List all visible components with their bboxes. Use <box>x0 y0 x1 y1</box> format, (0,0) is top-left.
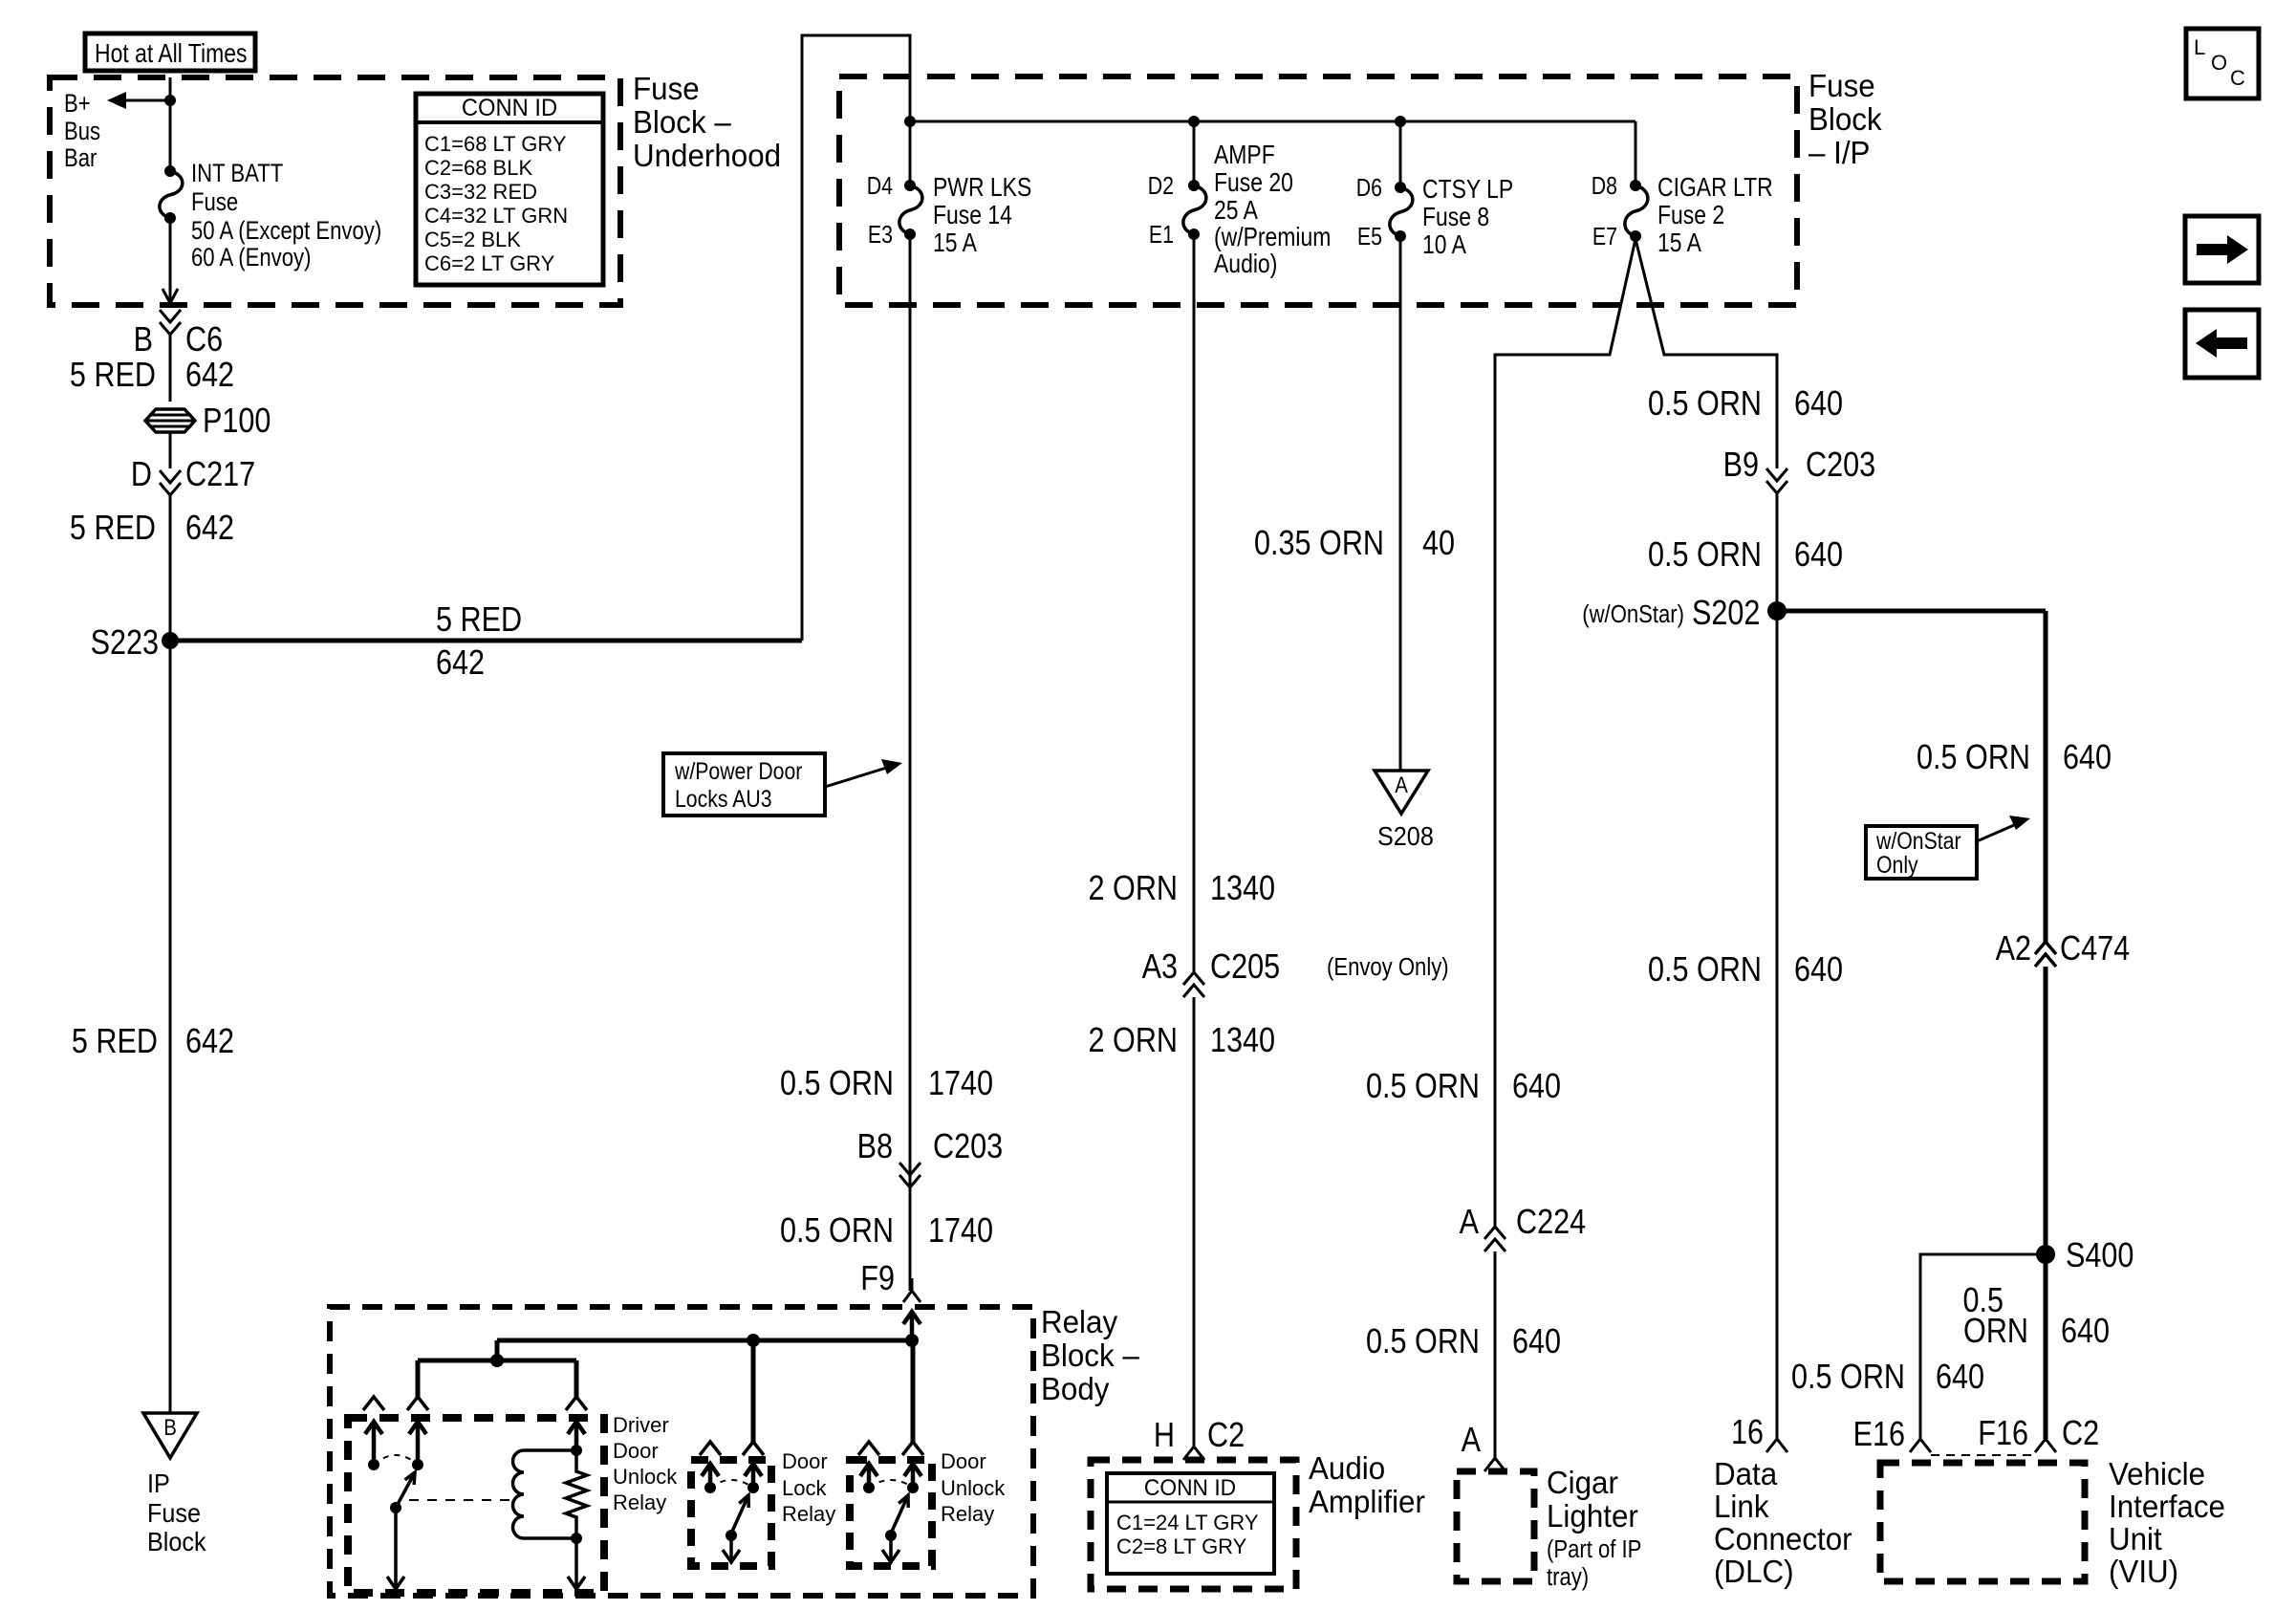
svg-text:(Part of IP: (Part of IP <box>1547 1535 1641 1563</box>
svg-text:F9: F9 <box>860 1260 895 1298</box>
svg-text:1340: 1340 <box>1210 1022 1275 1060</box>
svg-text:(w/OnStar): (w/OnStar) <box>1582 600 1684 628</box>
svg-text:ORN: ORN <box>1963 1313 2028 1351</box>
svg-text:0.35 ORN: 0.35 ORN <box>1254 525 1384 563</box>
svg-text:0.5 ORN: 0.5 ORN <box>1917 739 2030 777</box>
switch blade driver relay <box>396 1472 415 1508</box>
svg-text:S202: S202 <box>1692 595 1760 633</box>
svg-text:0.5 ORN: 0.5 ORN <box>1791 1359 1905 1397</box>
svg-text:INT BATT: INT BATT <box>191 160 283 188</box>
svg-text:A: A <box>1460 1204 1480 1242</box>
svg-text:(DLC): (DLC) <box>1714 1554 1794 1589</box>
svg-text:640: 640 <box>1936 1359 1984 1397</box>
svg-text:C474: C474 <box>2060 930 2130 968</box>
wire 5 RED 642 from S223 to riser (bold) <box>170 639 802 643</box>
svg-text:Connector: Connector <box>1714 1521 1852 1556</box>
svg-text:C1=24 LT GRY: C1=24 LT GRY <box>1116 1511 1259 1534</box>
svg-text:AMPF: AMPF <box>1214 141 1275 170</box>
svg-text:C: C <box>2230 66 2245 90</box>
svg-text:S223: S223 <box>91 624 159 663</box>
wire S400 branch left down to VIU pin E16 <box>1920 1254 2046 1439</box>
node B+ bus bar arrow <box>125 99 170 102</box>
svg-text:0.5 ORN: 0.5 ORN <box>1366 1323 1480 1361</box>
svg-text:Fuse 8: Fuse 8 <box>1422 203 1489 232</box>
svg-text:Block: Block <box>1809 101 1883 137</box>
svg-text:P100: P100 <box>203 402 271 441</box>
svg-text:C203: C203 <box>933 1128 1003 1166</box>
svg-text:D8: D8 <box>1592 172 1617 201</box>
svg-text:E1: E1 <box>1149 221 1174 250</box>
wire pivot to bottom arrow driver relay <box>394 1508 398 1587</box>
splice S400 <box>2036 1245 2055 1264</box>
connector B / C6 <box>160 310 181 335</box>
wire battery feed vertical inside underhood block <box>169 77 172 171</box>
svg-text:Block –: Block – <box>1041 1338 1139 1373</box>
svg-text:Unlock: Unlock <box>613 1465 678 1489</box>
svg-text:Fuse 14: Fuse 14 <box>933 201 1012 230</box>
svg-text:Fuse: Fuse <box>191 188 238 217</box>
svg-text:A2: A2 <box>1996 930 2031 968</box>
svg-text:Link: Link <box>1714 1489 1769 1524</box>
svg-text:0.5 ORN: 0.5 ORN <box>1648 951 1762 990</box>
svg-text:0.5 ORN: 0.5 ORN <box>1648 385 1762 424</box>
svg-text:(Envoy Only): (Envoy Only) <box>1327 953 1449 981</box>
svg-text:Bar: Bar <box>64 144 97 173</box>
relay Door Lock Relay (dashed box) <box>691 1460 771 1566</box>
svg-text:Door: Door <box>782 1449 828 1473</box>
svg-text:F16: F16 <box>1978 1415 2028 1453</box>
svg-text:Unlock: Unlock <box>941 1476 1006 1500</box>
wire 2 ORN 1340 to audio amplifier <box>1193 997 1196 1447</box>
relay coil terminal <box>574 1424 579 1450</box>
arrow box right <box>2185 216 2259 283</box>
LOC reference box <box>2186 29 2259 98</box>
wire S202 branch to OnStar VIU (bold) <box>1777 609 2046 614</box>
svg-text:0.5 ORN: 0.5 ORN <box>1366 1068 1480 1106</box>
svg-text:642: 642 <box>185 1023 234 1061</box>
wire entering relay block from F9 (bold arrow up) <box>910 1314 915 1340</box>
svg-text:B8: B8 <box>857 1128 893 1166</box>
wire 0.35 ORN 40 from CTSY LP fuse down to S208 <box>1399 236 1402 771</box>
svg-text:640: 640 <box>1794 536 1843 575</box>
wire 0.5 ORN 640 to S202 <box>1776 493 1779 611</box>
terminal triangle B to IP Fuse Block <box>143 1413 197 1458</box>
svg-text:E5: E5 <box>1357 223 1382 251</box>
component box Audio Amplifier (dashed) <box>1091 1460 1296 1589</box>
contact arrows driver relay <box>372 1424 377 1463</box>
svg-text:IP: IP <box>147 1469 170 1499</box>
svg-text:C5=2 BLK: C5=2 BLK <box>424 228 521 251</box>
relay resistor <box>566 1450 587 1538</box>
connector table CONN ID audio amplifier <box>1107 1473 1274 1574</box>
relay Door Unlock Relay (dashed box) <box>850 1460 932 1566</box>
wire 5 RED 642 segment 2 <box>169 495 172 641</box>
svg-text:Unit: Unit <box>2109 1521 2162 1556</box>
wire S400 down to VIU pin F16 (bold) <box>2044 1254 2048 1439</box>
svg-text:Audio): Audio) <box>1214 250 1277 279</box>
arrow from AU3 label to wire <box>825 766 893 787</box>
connector table CONN ID underhood <box>416 94 603 285</box>
svg-text:642: 642 <box>185 357 234 395</box>
label box w/Power Door Locks AU3 <box>663 753 825 816</box>
connector A / C224 <box>1484 1227 1505 1251</box>
connector A3 / C205 (Envoy Only) <box>1183 972 1204 997</box>
svg-text:C6: C6 <box>185 321 223 359</box>
svg-text:S400: S400 <box>2066 1237 2134 1275</box>
svg-text:tray): tray) <box>1547 1563 1589 1591</box>
terminal chevrons driver relay <box>363 1397 384 1410</box>
wire coil bottom to arrow <box>574 1538 578 1587</box>
wire bus inside relay block (bold) <box>497 1338 912 1343</box>
fuse CTSY LP Fuse 8 10A (pins D6/E5) <box>1390 187 1413 236</box>
svg-text:E7: E7 <box>1592 223 1617 251</box>
svg-text:Lighter: Lighter <box>1547 1498 1638 1534</box>
component box Fuse Block - I/P (dashed) <box>839 76 1797 305</box>
svg-text:640: 640 <box>1794 385 1843 424</box>
svg-text:C2=68 BLK: C2=68 BLK <box>424 156 532 180</box>
contact arrows door unlock relay <box>867 1466 872 1486</box>
relay coil <box>513 1450 577 1538</box>
wire drop to door lock relay <box>751 1340 756 1444</box>
svg-text:PWR LKS: PWR LKS <box>933 173 1031 203</box>
svg-text:w/OnStar: w/OnStar <box>1875 827 1961 854</box>
svg-text:Relay: Relay <box>782 1502 835 1526</box>
fuse AMPF Fuse 20 25A (pins D2/E1) <box>1183 185 1206 234</box>
connector A2 / C474 <box>2035 942 2056 967</box>
svg-text:Driver: Driver <box>613 1413 669 1437</box>
splice S223 <box>162 632 179 649</box>
svg-text:640: 640 <box>1794 951 1843 990</box>
svg-text:50 A (Except Envoy): 50 A (Except Envoy) <box>191 217 381 246</box>
svg-text:Block –: Block – <box>633 104 731 140</box>
component box Vehicle Interface Unit (dashed) <box>1880 1463 2085 1581</box>
svg-text:Relay: Relay <box>613 1490 666 1514</box>
svg-text:C4=32 LT GRN: C4=32 LT GRN <box>424 204 568 228</box>
svg-text:0.5 ORN: 0.5 ORN <box>1648 536 1762 575</box>
svg-text:Hot at All Times: Hot at All Times <box>95 39 247 69</box>
svg-text:CONN ID: CONN ID <box>462 95 557 121</box>
terminal triangle A splice S208 <box>1375 771 1428 814</box>
svg-text:10 A: 10 A <box>1422 230 1467 260</box>
svg-text:B+: B+ <box>64 90 91 119</box>
wire bus inside I/P fuse block <box>910 120 1635 123</box>
svg-text:– I/P: – I/P <box>1809 135 1870 170</box>
svg-text:C6=2 LT GRY: C6=2 LT GRY <box>424 251 555 275</box>
svg-text:CONN ID: CONN ID <box>1144 1474 1236 1500</box>
svg-text:5 RED: 5 RED <box>72 1023 158 1061</box>
svg-text:C224: C224 <box>1516 1204 1586 1242</box>
svg-text:640: 640 <box>2061 1313 2110 1351</box>
svg-text:15 A: 15 A <box>933 228 978 258</box>
svg-text:A: A <box>1462 1422 1482 1460</box>
svg-text:C2: C2 <box>1207 1417 1245 1455</box>
svg-text:Fuse: Fuse <box>1809 68 1875 103</box>
svg-text:Block: Block <box>147 1527 206 1557</box>
svg-text:A: A <box>1395 772 1408 797</box>
component box Cigar Lighter (dashed) <box>1457 1471 1534 1581</box>
svg-text:Cigar: Cigar <box>1547 1465 1618 1500</box>
svg-text:Vehicle: Vehicle <box>2109 1456 2205 1491</box>
fuse INT BATT 50A/60A <box>160 171 183 218</box>
svg-text:CIGAR LTR: CIGAR LTR <box>1657 173 1773 203</box>
wire from INT BATT fuse to underhood block edge <box>169 218 172 301</box>
svg-text:Amplifier: Amplifier <box>1309 1484 1425 1519</box>
svg-text:Fuse 20: Fuse 20 <box>1214 168 1293 198</box>
svg-text:D: D <box>131 456 152 494</box>
svg-text:A3: A3 <box>1142 948 1178 987</box>
svg-text:Interface: Interface <box>2109 1489 2225 1524</box>
svg-text:O: O <box>2211 51 2227 75</box>
svg-text:C2: C2 <box>2062 1415 2099 1453</box>
svg-text:Lock: Lock <box>782 1476 827 1500</box>
svg-text:C217: C217 <box>185 456 255 494</box>
connector B8 / C203 <box>899 1163 921 1187</box>
svg-text:Fuse: Fuse <box>633 71 700 106</box>
svg-text:w/Power Door: w/Power Door <box>674 757 803 784</box>
svg-text:25 A: 25 A <box>1214 196 1259 226</box>
wire drop to door unlock relay <box>911 1340 916 1444</box>
svg-text:5 RED: 5 RED <box>70 510 156 548</box>
switch blade door unlock relay <box>891 1495 908 1534</box>
svg-text:16: 16 <box>1731 1414 1764 1452</box>
svg-text:C203: C203 <box>1806 446 1875 485</box>
svg-text:Relay: Relay <box>1041 1304 1118 1339</box>
svg-text:Underhood: Underhood <box>633 138 781 173</box>
svg-text:0.5 ORN: 0.5 ORN <box>780 1065 894 1103</box>
svg-text:(w/Premium: (w/Premium <box>1214 223 1331 252</box>
svg-text:B9: B9 <box>1723 446 1759 485</box>
wire 2 ORN 1340 from AMPF fuse down <box>1193 234 1196 972</box>
svg-text:642: 642 <box>185 510 234 548</box>
svg-text:60 A (Envoy): 60 A (Envoy) <box>191 244 311 272</box>
relay Driver Door Unlock Relay (dashed box) <box>348 1418 604 1593</box>
svg-text:B: B <box>134 321 153 359</box>
fuse CIGAR LTR Fuse 2 15A (pins D8/E7) <box>1625 185 1648 236</box>
arrow box left <box>2185 310 2259 378</box>
svg-text:Only: Only <box>1876 851 1918 878</box>
svg-text:15 A: 15 A <box>1657 228 1702 258</box>
label box w/OnStar Only <box>1866 826 1977 879</box>
svg-text:E16: E16 <box>1853 1416 1905 1454</box>
svg-text:40: 40 <box>1422 525 1455 563</box>
svg-text:CTSY LP: CTSY LP <box>1422 175 1513 205</box>
svg-text:(VIU): (VIU) <box>2109 1554 2178 1589</box>
svg-text:D6: D6 <box>1356 174 1382 203</box>
svg-text:640: 640 <box>1512 1068 1561 1106</box>
svg-text:C3=32 RED: C3=32 RED <box>424 180 537 204</box>
component box Relay Block - Body (dashed) <box>330 1307 1033 1596</box>
fuse PWR LKS Fuse 14 15A (pins D4/E3) <box>899 185 922 234</box>
svg-text:5 RED: 5 RED <box>436 601 522 640</box>
terminal chevrons door lock relay <box>700 1442 721 1455</box>
svg-text:Data: Data <box>1714 1456 1777 1491</box>
svg-text:D4: D4 <box>867 172 893 201</box>
wire 0.5 ORN 640 from S202 down to DLC <box>1776 611 1779 1439</box>
svg-text:2 ORN: 2 ORN <box>1089 870 1178 908</box>
svg-text:642: 642 <box>436 644 485 683</box>
svg-text:Relay: Relay <box>941 1502 994 1526</box>
svg-text:Locks AU3: Locks AU3 <box>675 785 772 812</box>
contact arrows door lock relay <box>708 1466 713 1486</box>
svg-text:0.5 ORN: 0.5 ORN <box>780 1212 894 1251</box>
svg-text:Fuse: Fuse <box>147 1498 201 1529</box>
svg-text:640: 640 <box>2063 739 2112 777</box>
svg-text:L: L <box>2194 35 2205 59</box>
svg-text:C1=68 LT GRY: C1=68 LT GRY <box>424 132 567 156</box>
wire lower bus to driver relay terminals <box>418 1359 576 1363</box>
svg-text:E3: E3 <box>868 221 893 250</box>
wire below P100 <box>169 431 172 468</box>
arrow from w/OnStar Only label to wire <box>1977 822 2021 841</box>
svg-text:2 ORN: 2 ORN <box>1089 1022 1178 1060</box>
terminal chevrons door unlock relay <box>858 1442 879 1455</box>
svg-text:C2=8 LT GRY: C2=8 LT GRY <box>1116 1534 1247 1558</box>
svg-text:Fuse 2: Fuse 2 <box>1657 201 1724 230</box>
svg-text:C205: C205 <box>1210 948 1280 987</box>
wire 5 RED 642 segment 3 down to IP fuse block <box>169 641 172 1413</box>
connector B9 / C203 <box>1766 468 1787 493</box>
svg-text:Body: Body <box>1041 1371 1110 1406</box>
component box Fuse Block - Underhood (dashed) <box>50 77 620 305</box>
connector D / C217 <box>160 470 181 495</box>
svg-text:B: B <box>163 1414 177 1440</box>
svg-text:D2: D2 <box>1148 172 1174 201</box>
grommet P100 <box>145 409 195 432</box>
svg-text:1740: 1740 <box>928 1212 993 1251</box>
wire 0.5 ORN 1740 from PWR LKS fuse down to relay block <box>909 234 912 1291</box>
svg-text:5 RED: 5 RED <box>70 357 156 395</box>
svg-text:Door: Door <box>941 1449 986 1473</box>
svg-text:1340: 1340 <box>1210 870 1275 908</box>
label box Hot at All Times <box>85 33 255 71</box>
svg-text:Bus: Bus <box>64 118 100 146</box>
wire 5 RED 642 segment 1 <box>169 335 172 402</box>
svg-text:640: 640 <box>1512 1323 1561 1361</box>
svg-text:Door: Door <box>613 1439 659 1463</box>
svg-text:1740: 1740 <box>928 1065 993 1103</box>
svg-text:H: H <box>1154 1417 1175 1455</box>
switch blade door lock relay <box>731 1495 748 1534</box>
component edge between VIU pins (thin dashed) <box>1931 1454 2035 1456</box>
wire split below CIGAR LTR fuse <box>1495 239 1635 1227</box>
mech link arc driver relay <box>374 1455 418 1465</box>
mech link dashes driver relay to coil <box>409 1499 509 1501</box>
wire riser up and over to I/P fuse block <box>802 35 910 641</box>
svg-text:S208: S208 <box>1377 821 1434 852</box>
wire stub to lower bus <box>495 1340 500 1360</box>
splice S202 (w/OnStar) <box>1767 601 1787 620</box>
svg-text:Audio: Audio <box>1309 1450 1385 1486</box>
